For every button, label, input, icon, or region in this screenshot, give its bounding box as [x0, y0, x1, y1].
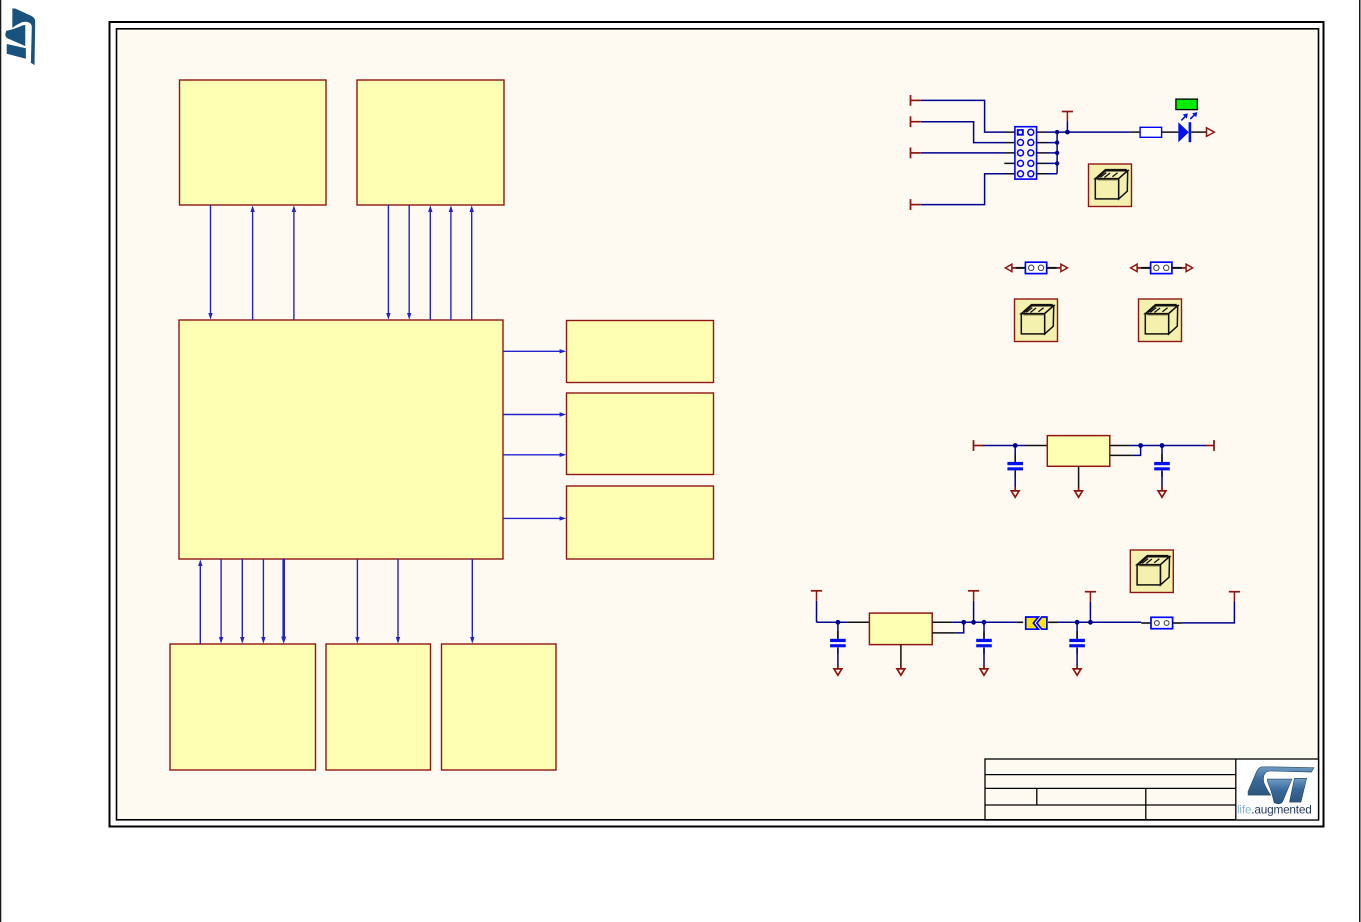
- port arrow out: [1207, 128, 1215, 137]
- JP1 right stub: [1047, 267, 1057, 269]
- wire C4 to ground: [983, 648, 985, 668]
- JP2 left port arrow: [1131, 264, 1138, 271]
- jumper JP1 body: [1025, 262, 1046, 273]
- svg-text:life.augmented: life.augmented: [1237, 803, 1312, 817]
- R1 right lead to LED: [1162, 131, 1179, 133]
- terminal VOUT right: [1206, 440, 1214, 451]
- wire bus U3 to U7 down arrow c: [261, 559, 265, 644]
- JP2 left stub: [1141, 267, 1151, 269]
- ground C1: [1011, 487, 1019, 497]
- title block row line 3: [985, 804, 1236, 806]
- U10 input lead: [1026, 445, 1048, 447]
- block U7 (bottom-left sheet symbol): [170, 644, 316, 770]
- U11 ground pin wire: [900, 645, 902, 669]
- wire terminal3 to CN1 pin5: [921, 152, 1006, 154]
- terminal VIN left: [974, 440, 984, 451]
- wire bus U3 to U5 right arrow a: [503, 412, 566, 416]
- U10 second output pin lead: [1110, 454, 1133, 456]
- wire C4 drop: [983, 622, 985, 639]
- U11 input lead: [848, 621, 870, 623]
- block U1 (top-left sheet symbol): [180, 80, 327, 205]
- rotated ST logo top-left corner: [5, 8, 35, 65]
- ground C3: [834, 665, 842, 675]
- block U9 (bottom right sheet symbol): [442, 644, 557, 770]
- wire bus U3 to U7 thick down arrow d: [281, 559, 286, 644]
- block U2 (top second sheet symbol): [357, 80, 504, 205]
- LED right lead: [1191, 131, 1206, 133]
- power tap VDD above CN1: [1062, 112, 1073, 133]
- junction dot C3: [836, 620, 841, 625]
- regulator U10: [1047, 436, 1110, 467]
- title block column divider b: [1145, 788, 1147, 820]
- box icon above CN2: [1130, 550, 1173, 593]
- box icon below JP2: [1139, 299, 1182, 342]
- terminal P1 pin4: [911, 199, 921, 210]
- wire U10 output rail: [1130, 445, 1206, 447]
- block U3 (central sheet symbol): [179, 320, 503, 559]
- capacitor C5: [1069, 631, 1085, 654]
- bead L1 right lead: [1048, 621, 1058, 623]
- terminal P1 pin2: [911, 116, 921, 127]
- ground C4: [980, 665, 988, 675]
- wire C5 to ground: [1076, 648, 1078, 668]
- block U8 (bottom middle sheet symbol): [326, 644, 431, 770]
- wire C3 drop: [837, 622, 839, 639]
- title block logo cell background: [1236, 759, 1319, 820]
- wire C2 drop: [1161, 446, 1163, 462]
- block U6 (right sheet symbol 3): [567, 486, 714, 559]
- regulator U11: [869, 613, 932, 645]
- capacitor C2: [1154, 454, 1170, 477]
- ferrite bead L1: [1023, 615, 1049, 631]
- wire bus U3 to U9 down arrow: [470, 559, 474, 644]
- junction dot C4: [982, 620, 987, 625]
- power tap right end: [1229, 592, 1240, 602]
- wire bus U3 to U8 down arrow b: [396, 559, 400, 644]
- wire C1 drop: [1014, 446, 1016, 462]
- connector CN1 (2x5 header): [1015, 127, 1037, 179]
- wire bus U3 to U7 down arrow b: [240, 559, 244, 644]
- junction dots on CN1 bus: [1055, 130, 1059, 166]
- wire CN2 to power tap: [1182, 602, 1235, 623]
- JP1 left stub: [1016, 267, 1026, 269]
- bead L1 left lead: [1017, 621, 1025, 623]
- JP2 right port arrow: [1182, 267, 1186, 269]
- JP1 left port arrow: [1005, 264, 1012, 271]
- wire terminal4 to CN1 pin9: [921, 174, 1006, 205]
- wire CN1 to R1: [1057, 131, 1130, 133]
- block U5 (right sheet symbol 2): [567, 393, 714, 475]
- junction dot 3V3 b: [1088, 620, 1093, 625]
- title block row line 1: [985, 774, 1236, 776]
- wire bus U7 to U3 up arrow: [198, 559, 202, 644]
- R1 left lead: [1130, 131, 1140, 133]
- wire bus U3 to U2 up arrow c: [470, 205, 474, 320]
- title block outline: [985, 759, 1319, 820]
- title block logo cell divider: [1235, 759, 1237, 820]
- junction dot C2: [1160, 443, 1165, 448]
- capacitor C3: [830, 631, 846, 654]
- wire bus U3 to U2 up arrow b: [449, 205, 453, 320]
- wire bus U3 to U6 right arrow: [503, 516, 566, 520]
- U10 ground pin wire: [1078, 466, 1080, 490]
- terminal P1 pin1: [911, 95, 921, 106]
- U10 output pin lead: [1110, 445, 1130, 447]
- wire VIN to U10: [983, 445, 1026, 447]
- ground U11: [897, 665, 905, 675]
- box icon near CN1: [1089, 164, 1132, 207]
- wire bus U3 to U2 up arrow a: [428, 205, 432, 320]
- wire bus U3 to U5 right arrow b: [503, 453, 566, 457]
- JP2 right stub: [1172, 267, 1182, 269]
- wire 5V to U11: [817, 621, 848, 623]
- CN1 left pin stubs: [1004, 132, 1015, 174]
- wire second pin wrap up: [1133, 446, 1141, 456]
- jumper JP2 body: [1151, 262, 1172, 273]
- wire bus U2 to U3 down arrow b: [407, 205, 411, 320]
- connector CN2 (2-pin): [1151, 617, 1173, 628]
- wire bus U3 to U1 up arrow a: [250, 205, 254, 320]
- LED D1: [1178, 112, 1197, 142]
- ground U10: [1075, 487, 1083, 497]
- wire C2 to ground: [1161, 472, 1163, 491]
- terminal P1 pin3: [911, 148, 921, 159]
- junction dot at power tap: [1065, 130, 1070, 135]
- power tap 3V3 b: [1085, 592, 1096, 623]
- title block column divider a: [1036, 788, 1038, 805]
- wire bottom rail left of bead: [952, 621, 1017, 623]
- resistor R1: [1140, 127, 1162, 137]
- wire bus U3 to U4 right arrow: [503, 349, 566, 353]
- connector CN2 right stub: [1173, 622, 1182, 624]
- U11 second output pin lead: [932, 632, 956, 634]
- wire bottom rail right of bead: [1058, 621, 1142, 623]
- JP1 right port arrow: [1057, 267, 1061, 269]
- wire C3 to ground: [837, 648, 839, 668]
- box icon below JP1: [1015, 299, 1058, 342]
- wire C5 drop: [1076, 622, 1078, 639]
- wire bus U1 to U3 down arrow: [208, 205, 212, 320]
- junction dot C5: [1075, 620, 1080, 625]
- junction dot U11 wrap: [961, 620, 966, 625]
- wire terminal1 to CN1 pin1: [921, 100, 1006, 132]
- title block row line 2: [985, 787, 1236, 789]
- junction dot C1: [1013, 443, 1018, 448]
- wire bus U3 to U8 down arrow a: [355, 559, 359, 644]
- wire bus U3 to U1 up arrow b: [292, 205, 296, 320]
- wire bus U2 to U3 down arrow a: [386, 205, 390, 320]
- ground C2: [1158, 487, 1166, 497]
- U11 output pin lead: [932, 621, 952, 623]
- power tap 5V left: [811, 591, 822, 623]
- wire terminal2 to CN1 pin3: [921, 122, 1006, 143]
- green label box above LED: [1176, 99, 1198, 110]
- wire U11 second pin wrap up: [956, 622, 964, 633]
- junction dot 3V3 a: [971, 620, 976, 625]
- CN1 right pin stubs: [1037, 132, 1047, 174]
- connector CN2 left stub: [1141, 622, 1151, 624]
- power tap 3V3 a: [968, 591, 979, 623]
- wire bus U3 to U7 down arrow a: [219, 559, 223, 644]
- capacitor C4: [976, 631, 992, 654]
- ST logo in title block: [1248, 767, 1314, 804]
- capacitor C1: [1007, 454, 1023, 477]
- wire C1 to ground: [1014, 472, 1016, 491]
- wire CN1 right-side bus: [1046, 132, 1057, 174]
- junction dot output wrap: [1138, 443, 1143, 448]
- ground C5: [1073, 665, 1081, 675]
- block U4 (right sheet symbol 1): [567, 321, 714, 383]
